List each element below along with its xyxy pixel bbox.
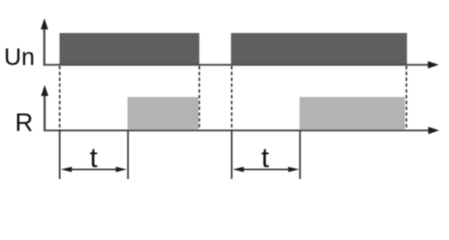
svg-text:R: R <box>15 109 33 137</box>
svg-text:Un: Un <box>4 44 35 71</box>
svg-text:t: t <box>90 142 98 173</box>
svg-text:t: t <box>261 142 269 173</box>
